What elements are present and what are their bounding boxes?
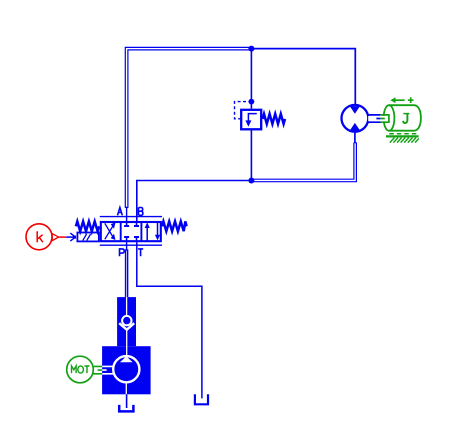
wire junction1 to motor top	[251, 49, 355, 105]
wire motor bottom to junction 2 (hollow pipe)	[251, 143, 356, 182]
load direction arrow and plus	[390, 97, 413, 103]
inertia load J body	[384, 105, 421, 131]
check valve CV1 (white on block)	[119, 297, 134, 356]
wire motor bottom stub	[354, 132, 356, 143]
valve cell 2 closed-center blockers	[124, 222, 139, 241]
valve cell 3 parallel arrows	[145, 222, 161, 240]
electric motor MOT	[67, 356, 102, 383]
valve position dividers	[121, 222, 142, 241]
valve right spring	[162, 221, 187, 231]
relief valve internal arrow	[245, 114, 256, 127]
T line (valve to tank 2)	[137, 242, 202, 398]
P line (valve to pump, hollow pipe)	[126, 242, 128, 297]
wire B-line (junction2 to valve port B)	[137, 181, 252, 222]
wire pump to tank 1	[126, 394, 128, 408]
directional valve V1 body	[101, 222, 161, 241]
relief valve body	[241, 110, 261, 130]
relief valve spring	[263, 114, 285, 124]
shaft motor to load	[368, 114, 389, 123]
wire k to solenoid with arrowhead	[66, 233, 76, 241]
wire A-line (valve port A up and right to relief junction, hollow pipe)	[125, 47, 252, 221]
directional valve V1 proportional frame lines	[100, 217, 162, 246]
hydraulic motor M1	[342, 105, 369, 132]
port labels A B P T	[118, 208, 144, 257]
proportional solenoid box	[77, 233, 99, 242]
relief valve pilot line (dashed)	[235, 102, 252, 119]
wire relief valve bottom to junction2	[250, 129, 252, 180]
pump unit block (filled)	[102, 297, 151, 394]
pilot junction node	[249, 99, 255, 105]
valve cell 1 crossed arrows	[105, 222, 116, 240]
valve left spring	[76, 221, 99, 231]
tank T2	[195, 394, 208, 404]
junction node 1 (A-line / relief valve / motor line)	[248, 46, 254, 52]
load J label	[403, 114, 409, 123]
signal source k	[26, 224, 66, 250]
pump P1 (white on block)	[102, 356, 139, 394]
ground (load mount): dashed line, base line, hatching	[386, 134, 419, 143]
junction node 2 (B-line / relief valve bottom)	[248, 178, 254, 184]
wire junction1 down to relief valve	[250, 49, 252, 109]
tank T1	[119, 405, 133, 412]
